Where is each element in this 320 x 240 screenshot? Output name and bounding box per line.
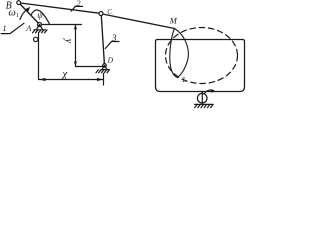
pivot A hatching <box>33 30 48 33</box>
dimension y bottom arrowhead <box>74 62 77 67</box>
agitator ground line <box>195 103 214 105</box>
svg-text:y: y <box>63 38 74 44</box>
dimension X right arrowhead <box>97 78 103 81</box>
agitator ground hatching <box>195 105 213 108</box>
small circle on left extension <box>34 37 38 41</box>
svg-text:L: L <box>181 75 186 84</box>
lower datum line to D <box>76 66 104 68</box>
svg-text:χ: χ <box>61 68 68 80</box>
pivot D extension line <box>103 74 105 86</box>
omega1 arrowhead <box>26 7 31 13</box>
pivot D hatching <box>96 70 109 73</box>
agitator rotation arrow <box>205 90 214 94</box>
angle psi arc <box>31 10 49 24</box>
wire link 2 extension (C-M) <box>103 14 175 29</box>
agitator shaft <box>201 92 203 105</box>
horizontal datum line from A <box>42 24 82 26</box>
label 3 leader <box>105 42 119 49</box>
label 2 leader <box>71 6 83 11</box>
svg-text:M: M <box>169 16 178 26</box>
svg-text:D: D <box>107 56 114 65</box>
tank rectangle <box>156 40 245 92</box>
dimension X left arrowhead <box>39 78 45 81</box>
dashed circle (mixing zone) <box>166 28 238 84</box>
svg-text:1: 1 <box>2 23 6 33</box>
dimension y top arrowhead <box>74 25 77 30</box>
omega1 rotation arc <box>20 8 29 19</box>
wire link 1 (crank A-B) <box>20 4 39 24</box>
svg-text:3: 3 <box>111 33 117 43</box>
pivot A support <box>34 25 46 30</box>
svg-text:ψ: ψ <box>37 10 43 20</box>
dimension y vertical line <box>75 25 77 66</box>
node B <box>17 1 21 5</box>
pivot A joint <box>38 23 42 27</box>
wire link 3 (rocker C-D) <box>101 16 104 65</box>
left extension line below A <box>38 33 40 79</box>
agitator pivot circle <box>197 93 207 103</box>
svg-text:2: 2 <box>76 0 81 8</box>
dimension X line <box>39 79 104 81</box>
svg-text:A: A <box>25 23 32 33</box>
label 1 leader <box>1 23 24 33</box>
svg-text:ω1: ω1 <box>8 8 18 20</box>
node D joint <box>103 64 107 68</box>
agitator rotation arrowhead <box>211 90 215 93</box>
node C <box>99 12 103 16</box>
pivot D support <box>101 65 109 69</box>
paddle blade M-L <box>170 29 189 78</box>
svg-text:C: C <box>107 8 112 16</box>
wire link 2 (coupler B-C) <box>21 3 101 13</box>
